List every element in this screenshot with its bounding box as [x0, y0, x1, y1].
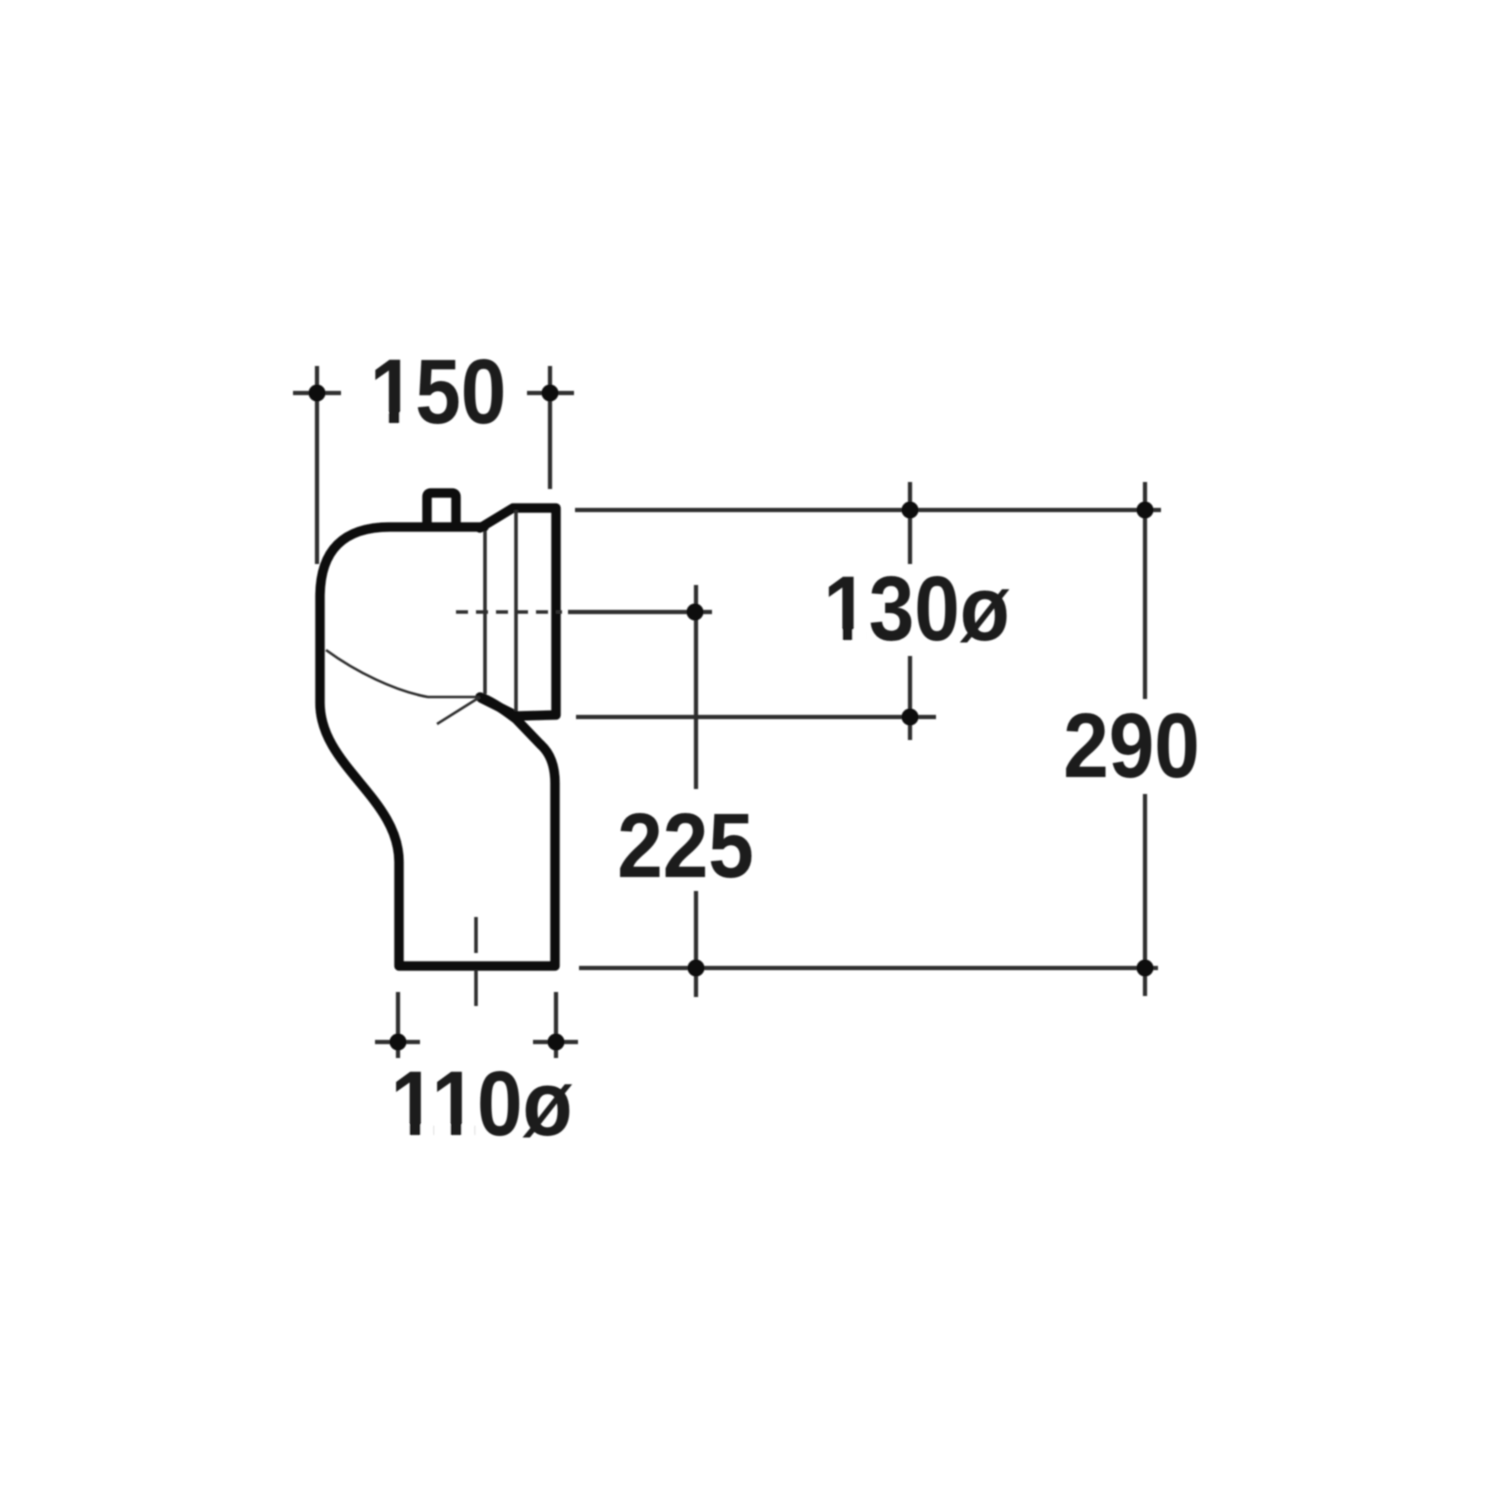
svg-text:290: 290 — [1063, 695, 1200, 797]
svg-text:150: 150 — [370, 341, 507, 443]
svg-text:110ø: 110ø — [390, 1053, 572, 1155]
svg-text:130ø: 130ø — [823, 558, 1010, 660]
svg-text:225: 225 — [617, 795, 754, 897]
